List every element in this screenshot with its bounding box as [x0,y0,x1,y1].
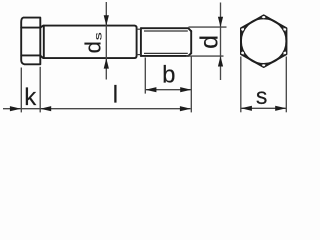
ext line s left [240,57,242,113]
ext line k left [20,68,22,113]
arrow ds down [104,15,109,25]
arrow s right [275,106,286,111]
arrowheads [10,15,286,111]
arrow d up [218,56,223,66]
ext line s right [285,57,287,113]
arrow ds up [104,58,109,68]
hexagon corner chamfer eyelets [241,16,286,66]
dim line d vertical [220,3,222,81]
dim line b horizontal [145,89,191,91]
undercut groove lines [137,29,141,54]
arrow b left [145,87,156,92]
ext line b left [144,58,146,94]
hex head outline (side view) [21,18,40,65]
hexagon inscribed chamfer circle [241,19,286,64]
svg-text:d: d [195,35,223,49]
svg-text:s: s [256,83,268,109]
ext line k right / l left [39,67,41,113]
thread crest bottom [141,53,191,56]
shank end chamfer line [43,26,45,58]
arrow d down [218,17,223,27]
svg-text:s: s [93,32,104,40]
shank (shoulder) outline [41,26,137,59]
arrow l right (tip at x=190.9) [180,106,191,111]
head facet line upper [21,27,40,29]
arrow l left (tip at x=40.2) [40,106,51,111]
arrow k right (tip at left ext) [10,106,21,111]
thread root lines [144,31,188,53]
thread crest top [141,28,191,31]
ext line l right / b right [190,57,192,113]
thread end face [190,31,192,53]
svg-text:b: b [162,62,175,89]
arrow s left [241,106,252,111]
ext line d bottom [186,55,224,57]
extension lines (thin) [3,2,286,112]
dim line k+l horizontal [3,108,191,110]
svg-text:l: l [113,81,118,108]
ext line d top [189,26,227,28]
arrow b right [180,87,191,92]
hexagon end view [241,15,286,67]
head facet line lower [21,54,40,56]
thread chamfer line [140,28,142,56]
svg-text:d: d [80,41,105,53]
dim line ds vertical [105,2,107,80]
dim line s horizontal [241,107,286,109]
svg-text:k: k [24,84,37,111]
